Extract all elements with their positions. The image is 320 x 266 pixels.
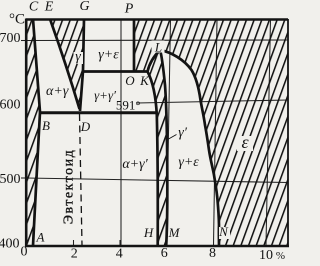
svg-text:α+γ: α+γ — [46, 84, 69, 99]
svg-text:M: M — [168, 225, 181, 240]
svg-text:α+γ′: α+γ′ — [122, 157, 148, 172]
svg-text:L: L — [154, 40, 162, 55]
svg-text:C: C — [29, 0, 39, 15]
svg-text:10: 10 — [259, 248, 273, 263]
svg-text:N: N — [218, 224, 229, 239]
svg-text:400: 400 — [0, 237, 20, 252]
svg-text:4: 4 — [116, 247, 123, 262]
svg-text:8: 8 — [209, 246, 216, 261]
svg-text:700: 700 — [0, 31, 21, 46]
svg-text:K: K — [139, 73, 150, 88]
svg-text:γ+γ′: γ+γ′ — [94, 88, 116, 103]
svg-text:E: E — [44, 0, 54, 15]
svg-text:H: H — [143, 225, 154, 240]
svg-text:γ+ε: γ+ε — [98, 48, 119, 63]
svg-text:%: % — [276, 250, 285, 262]
svg-text:G: G — [79, 0, 89, 14]
svg-text:600: 600 — [0, 98, 21, 113]
svg-text:D: D — [80, 119, 91, 134]
svg-text:A: A — [36, 230, 45, 245]
svg-text:B: B — [42, 118, 50, 133]
svg-text:γ: γ — [75, 50, 81, 65]
svg-text:Эвтектоид: Эвтектоид — [62, 149, 77, 225]
svg-text:500: 500 — [0, 172, 21, 187]
svg-text:0: 0 — [21, 245, 28, 260]
svg-text:γ′: γ′ — [178, 126, 188, 141]
svg-text:2: 2 — [71, 247, 78, 262]
svg-text:γ+ε: γ+ε — [178, 155, 199, 170]
svg-text:6: 6 — [161, 246, 168, 261]
svg-text:ε: ε — [241, 132, 249, 152]
svg-text:P: P — [124, 2, 134, 17]
svg-text:°C: °C — [9, 12, 25, 28]
svg-text:O: O — [125, 73, 135, 88]
svg-text:591°: 591° — [116, 98, 141, 113]
